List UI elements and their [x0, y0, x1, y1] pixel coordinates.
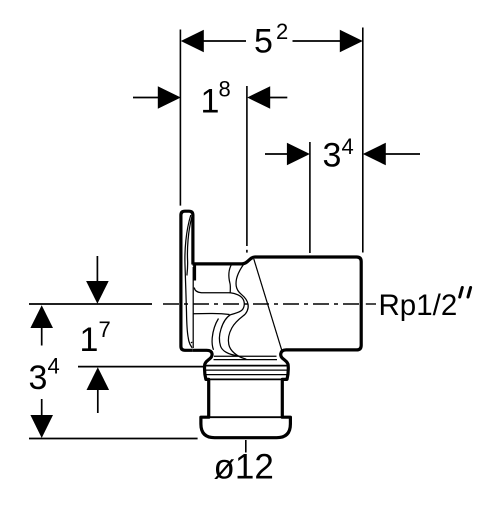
boss edge behind flange: [193, 264, 196, 281]
reference line bead bottom level: [29, 438, 198, 440]
svg-text:ø12: ø12: [214, 448, 274, 487]
dimension 1^8 text: [201, 77, 231, 121]
casting innermost leg: [212, 319, 218, 350]
svg-text:5: 5: [254, 23, 273, 61]
svg-text:1: 1: [201, 83, 220, 121]
flange inner leaf curve left: [185, 215, 191, 337]
dimension 1^7 top arrow: [86, 256, 109, 304]
svg-text:8: 8: [219, 77, 231, 102]
cone diagonal: [254, 259, 282, 351]
text diameter 12: [214, 448, 274, 487]
dimension 5^2 dim line: [203, 40, 341, 42]
dimension 5^2 right arrow: [340, 30, 363, 53]
flange inner leaf curve right: [187, 217, 192, 276]
collar ridge lines: [205, 370, 287, 375]
dimension 1^8 dim line: [133, 97, 287, 99]
dimension 1^7 bottom arrow: [87, 367, 110, 413]
dimension 3^4 left bottom arrow: [30, 399, 53, 438]
dimension 3^4 top text: [323, 134, 354, 175]
double prime marks: [460, 288, 471, 298]
svg-text:1: 1: [80, 321, 99, 359]
svg-text:3: 3: [29, 359, 48, 397]
bead top edge: [201, 416, 290, 418]
wall plate flange: [181, 211, 192, 350]
extension line right end (x=362.8): [362, 28, 364, 253]
collar bottom edge: [206, 378, 287, 380]
svg-text:Rp1/2: Rp1/2: [379, 289, 458, 322]
dimension 1^8 right arrow: [247, 86, 270, 109]
dimension 3^4 top left arrow: [287, 143, 310, 166]
flange crease vertical: [192, 267, 194, 348]
boss lower contour to nose: [193, 313, 229, 314]
svg-text:4: 4: [48, 354, 60, 379]
svg-text:2: 2: [276, 19, 288, 44]
svg-text:4: 4: [342, 134, 354, 159]
dimension 5^2 left arrow: [181, 30, 204, 53]
body outline: [192, 257, 361, 438]
text Rp1/2: [379, 289, 458, 322]
centre tick below bead: [245, 440, 247, 453]
centreline horizontal (dash-dot): [163, 303, 376, 305]
extension line x=309.9: [309, 142, 311, 253]
flange inner bottom hook: [188, 337, 197, 350]
casting inner S-curve with nose: [219, 265, 244, 356]
dimension 3^4 left top arrow: [30, 305, 53, 345]
dimension 3^4 top right arrow: [363, 143, 386, 166]
dimension 3^4 top dim line: [265, 153, 420, 155]
centre extension line of press outlet (x=246.9): [246, 86, 248, 253]
svg-text:7: 7: [99, 317, 111, 342]
collar top edge: [205, 365, 288, 367]
dimension 3^4 left text: [29, 354, 60, 398]
boss upper contour to nose: [194, 288, 230, 293]
dimension 5^2 text: [254, 19, 288, 61]
dimension 1^8 left arrow: [158, 86, 181, 109]
extension line left (wall face x=180.4): [179, 30, 181, 206]
dimension 1^7 text: [80, 317, 111, 359]
reference line centreline level left: [29, 303, 152, 305]
casting outer S-curve: [228, 265, 248, 360]
svg-text:3: 3: [323, 137, 342, 175]
neck ridge lines: [214, 356, 278, 359]
reference line collar top level: [78, 366, 215, 368]
